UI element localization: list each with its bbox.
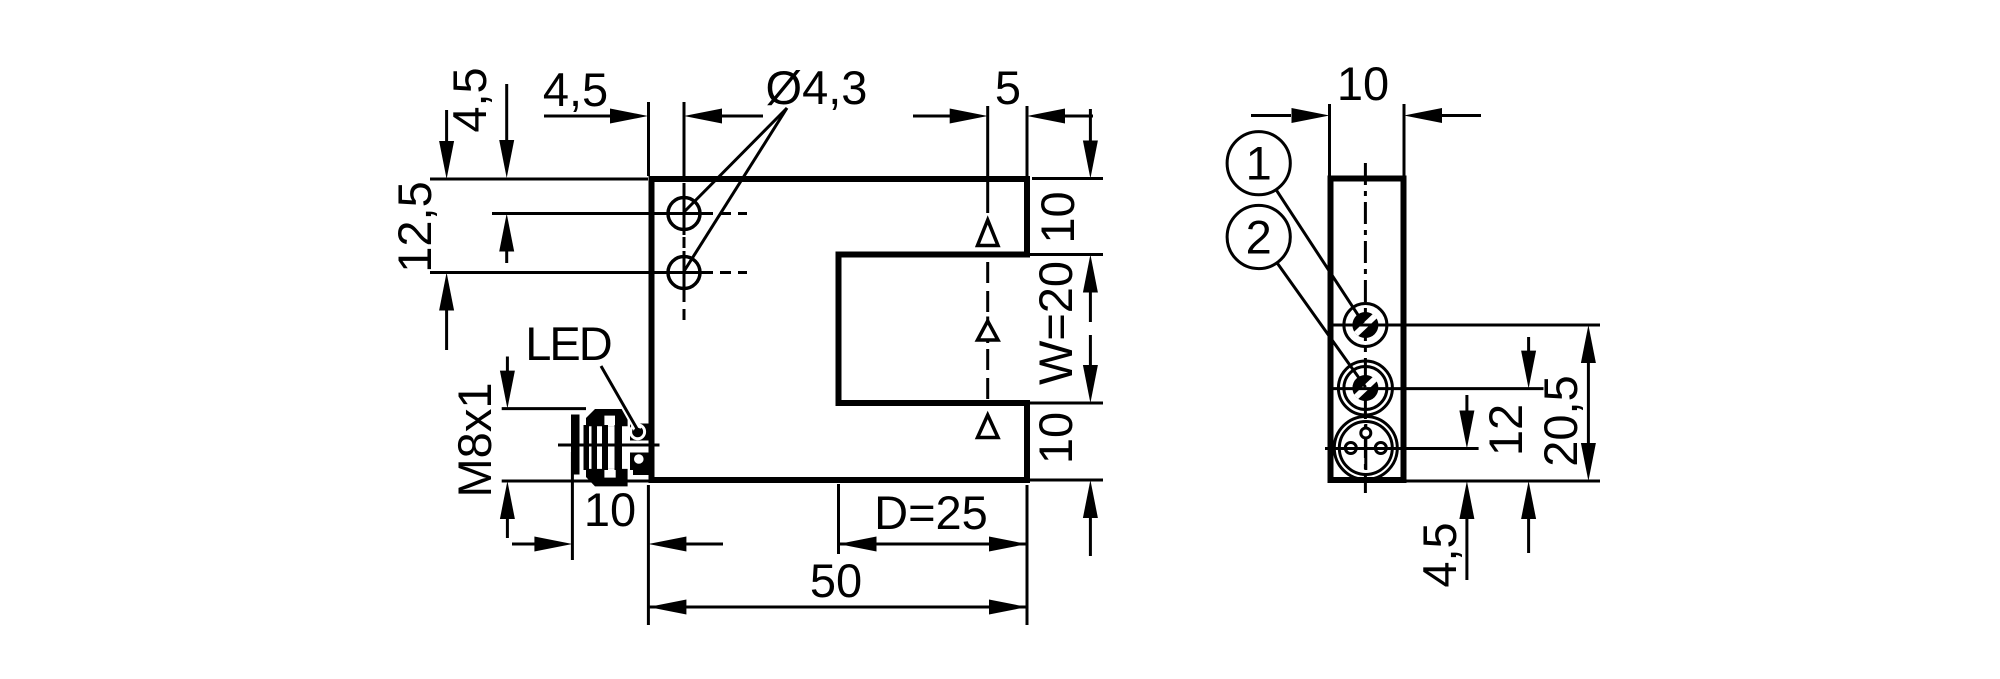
dimension 12 [1527, 337, 1530, 352]
row2 screw circle [1338, 361, 1392, 415]
balloon 1 [1227, 132, 1290, 195]
row1 horizontal line [1332, 324, 1600, 327]
hole H1 horizontal extension line [492, 212, 702, 215]
svg-text:10: 10 [1031, 191, 1084, 243]
dimension 4,5 (right view) [1465, 395, 1468, 412]
svg-text:10: 10 [584, 483, 636, 536]
hole H2 horizontal extension line [430, 271, 702, 274]
hole H2 vertical tick [683, 251, 686, 294]
dimension D=25 [839, 543, 1028, 546]
dimension 4,5 horizontal at top [544, 115, 615, 118]
right side dimension line 10 / W=20 / 10 [1089, 109, 1092, 141]
svg-text:50: 50 [810, 554, 862, 607]
hole center dashed vertical line [683, 183, 686, 322]
svg-text:10: 10 [1337, 57, 1389, 110]
hole H2 dashed continuation [702, 271, 747, 274]
svg-text:M8x1: M8x1 [448, 383, 501, 498]
beam marker triangle bottom arm [978, 415, 999, 438]
top edge extension to left [430, 178, 648, 181]
leader from balloon 2 [1277, 263, 1366, 388]
LED window ring [631, 425, 645, 439]
row3 M8 connector face [1334, 417, 1397, 480]
beam marker triangle top arm [978, 220, 999, 246]
extension line beam axis up [986, 106, 989, 213]
svg-text:1: 1 [1246, 137, 1272, 190]
svg-text:5: 5 [995, 61, 1021, 114]
extension line right edge up [1026, 106, 1029, 176]
row1 screw circle [1344, 304, 1387, 347]
row3 horizontal line [1325, 447, 1479, 450]
beam marker middle line [986, 317, 989, 344]
connector LED block [630, 424, 649, 441]
balloon 2 [1227, 205, 1290, 268]
hole H1 circle [668, 198, 700, 230]
dimension 50 [648, 606, 1027, 609]
LED leader line [601, 366, 638, 431]
body outline (U-shaped fork, left view) [652, 179, 1028, 480]
bottom extension (right view) [1404, 480, 1600, 483]
svg-text:4,5: 4,5 [543, 63, 608, 116]
svg-text:4,5: 4,5 [1413, 522, 1466, 587]
connector lower block [630, 453, 649, 471]
svg-text:4,5: 4,5 [443, 67, 496, 132]
extension line hole axis up [683, 102, 686, 176]
svg-text:10: 10 [1029, 412, 1082, 464]
LED window center [634, 428, 642, 436]
leader line to hole H2 [685, 108, 788, 271]
connector center line [558, 444, 660, 447]
connector M8 left wall [571, 415, 580, 475]
beam axis dashed line in gap [986, 262, 989, 403]
connector thread bars [584, 425, 590, 470]
svg-text:D=25: D=25 [874, 486, 988, 539]
dimension 10 (right view top) [1251, 114, 1291, 117]
right side extension lines [1032, 177, 1103, 180]
svg-text:2: 2 [1246, 211, 1272, 264]
extension line left edge up [647, 102, 650, 176]
dimension 5 at top right [913, 115, 952, 118]
dimension 12,5 vertical (line A) [445, 110, 448, 145]
M8x1 extension bottom (body bottom extended) [502, 480, 650, 483]
dimension 10 bottom left [512, 543, 535, 546]
bottom extension lines [571, 452, 574, 560]
svg-text:12: 12 [1479, 404, 1532, 456]
svg-text:Ø4,3: Ø4,3 [766, 61, 868, 114]
svg-text:20,5: 20,5 [1534, 375, 1587, 466]
leader from balloon 1 [1276, 190, 1363, 324]
connector small circle [634, 454, 644, 464]
LED leader line halo [606, 373, 638, 430]
dimension 4,5 vertical (line B) [505, 84, 508, 145]
leader line to hole H1 [685, 108, 788, 212]
center line dash-dot [1364, 163, 1367, 493]
beam marker middle triangle [978, 321, 999, 340]
svg-text:W=20: W=20 [1029, 261, 1082, 385]
hole H1 dashed continuation [702, 212, 747, 215]
connector top cap [586, 409, 628, 426]
row2 horizontal line [1332, 387, 1544, 390]
M8x1 dimension [506, 357, 509, 373]
hole H2 circle [668, 257, 700, 289]
M8x1 extension top [502, 407, 586, 410]
svg-text:12,5: 12,5 [388, 181, 441, 272]
body outline (right view) [1331, 179, 1404, 481]
connector bottom cap [586, 469, 628, 487]
dimension 20,5 [1581, 325, 1596, 363]
hole H1 vertical tick [683, 192, 686, 235]
svg-text:LED: LED [525, 317, 610, 370]
